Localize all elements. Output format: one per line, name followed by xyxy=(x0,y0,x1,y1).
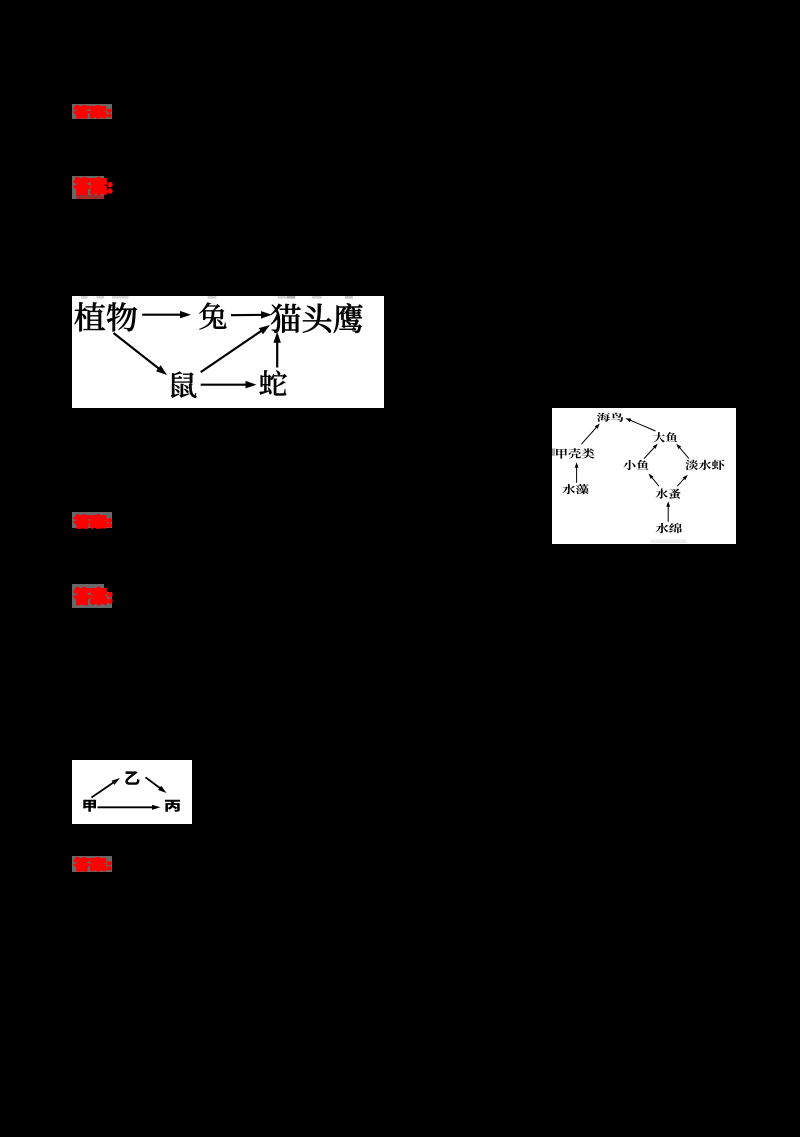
red mark 4 【答案】 text xyxy=(74,587,112,604)
arrow 兔→猫头鹰 xyxy=(231,314,265,317)
arrow 水绵→水蚤 xyxy=(667,505,669,522)
faint smudge under 水绵 xyxy=(651,540,687,544)
node 植物 (plants) xyxy=(75,302,137,331)
diagram 1 white panel xyxy=(72,296,384,408)
node 海鸟 (sea bird) xyxy=(597,413,623,422)
red mark 2 【答案】 xyxy=(72,176,104,199)
node 鼠 (mouse) xyxy=(171,371,197,398)
red mark 1 【答案】 text xyxy=(74,105,111,118)
arrow 蛇→猫头鹰 xyxy=(276,338,278,367)
red mark 1 【答案】 xyxy=(72,104,112,119)
red mark 5 【答案】 xyxy=(72,856,112,872)
arrow 鼠→猫头鹰 xyxy=(201,329,265,372)
arrow 植物→鼠 xyxy=(114,333,162,371)
arrow 小鱼→大鱼 xyxy=(644,446,656,459)
arrow 植物→兔 xyxy=(142,314,184,316)
node 水蚤 (water flea) xyxy=(656,489,681,499)
stray gray block at panel left edge xyxy=(552,448,555,455)
node 淡水虾 (freshwater shrimp) xyxy=(685,460,724,470)
arrow 淡水虾→大鱼 xyxy=(678,446,689,459)
node 丙 xyxy=(165,800,180,812)
node 猫头鹰 (owl) xyxy=(271,303,363,333)
arrow 水蚤→小鱼 xyxy=(651,476,659,486)
red mark 5 【答案】 text xyxy=(74,857,111,871)
arrow 甲→乙 xyxy=(92,781,116,798)
arrow 鼠→蛇 xyxy=(201,384,250,386)
arrow 甲壳类→海鸟 xyxy=(581,426,597,444)
red mark 3 【答案】 text xyxy=(74,515,111,528)
red mark 3 【答案】 xyxy=(72,512,112,528)
node 乙 xyxy=(125,771,139,784)
arrow 大鱼→海鸟 xyxy=(629,420,656,432)
node 大鱼 (big fish) xyxy=(653,432,677,442)
arrow 甲→丙 xyxy=(98,806,156,808)
arrow 乙→丙 xyxy=(146,777,163,790)
clipped glyph remnants along panel top edge xyxy=(81,296,88,299)
node 蛇 (snake) xyxy=(260,370,287,395)
node 甲 xyxy=(83,800,96,812)
node 小鱼 (small fish) xyxy=(623,460,648,470)
arrow 水蚤→淡水虾 xyxy=(677,477,685,486)
node 兔 (rabbit) xyxy=(199,303,226,330)
node 水绵 (spirogyra) xyxy=(656,523,682,533)
red mark 4 【答案】 xyxy=(72,584,104,608)
node 水藻 (algae) xyxy=(562,484,589,494)
diagram 3 white panel xyxy=(72,760,192,824)
red mark 2 【答案】 text xyxy=(74,177,112,194)
arrow 水藻→甲壳类 xyxy=(576,466,578,483)
node 甲壳类 (crustaceans) xyxy=(556,448,594,458)
diagram 2 white panel xyxy=(552,408,736,544)
